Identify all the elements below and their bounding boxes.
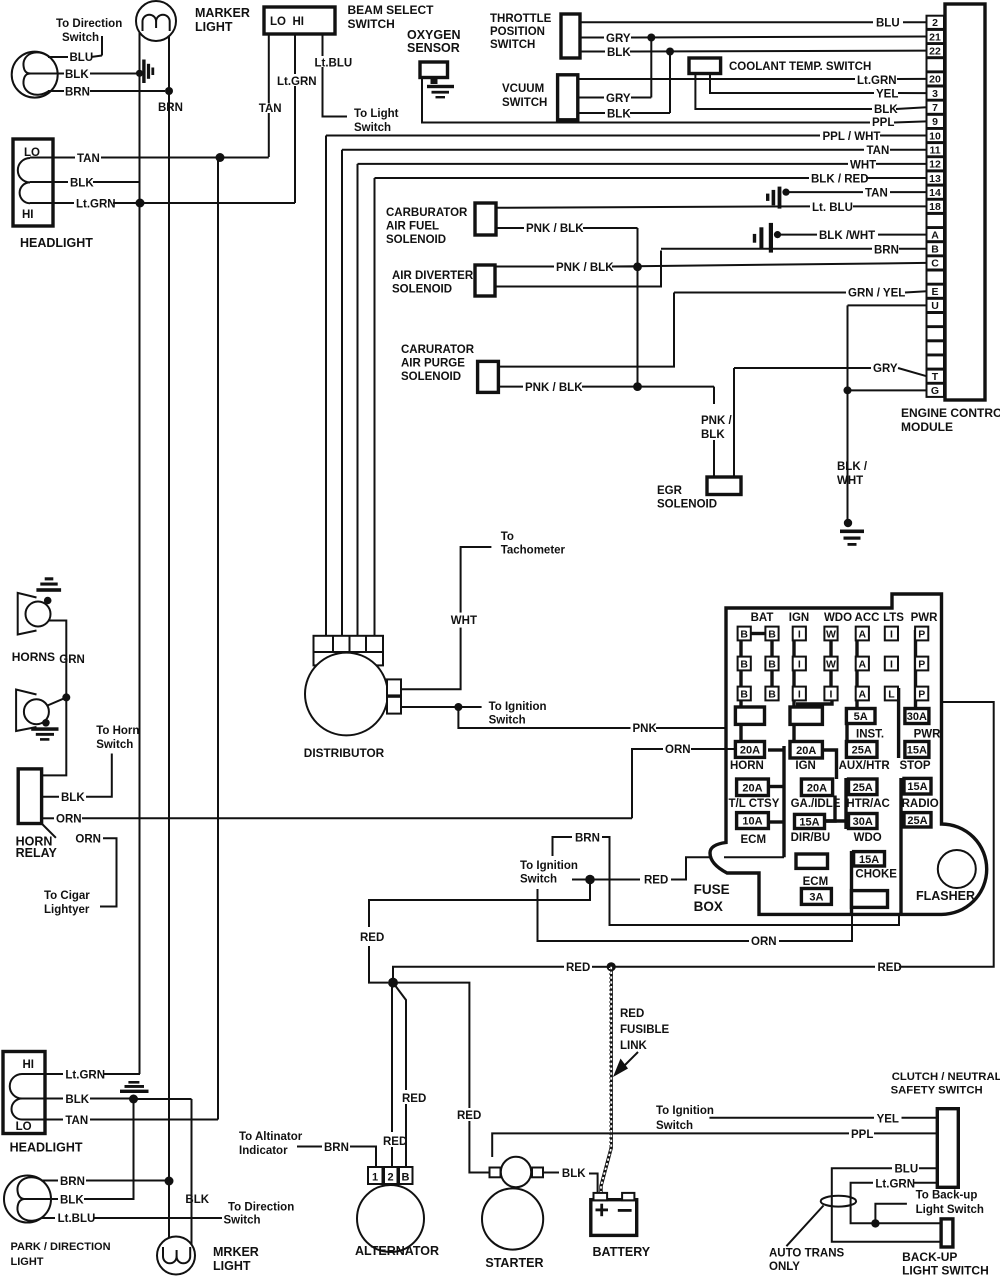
- svg-text:RADIO: RADIO: [902, 798, 939, 810]
- svg-text:TAN: TAN: [77, 153, 100, 165]
- svg-text:YEL: YEL: [877, 1114, 899, 1126]
- svg-text:AIR DIVERTER: AIR DIVERTER: [392, 270, 474, 282]
- svg-text:BLK: BLK: [562, 1168, 586, 1180]
- svg-text:Lt.GRN: Lt.GRN: [277, 76, 317, 88]
- svg-text:RED: RED: [644, 875, 668, 887]
- svg-text:To Horn: To Horn: [96, 725, 139, 737]
- svg-text:BLU: BLU: [876, 17, 900, 29]
- svg-text:LIGHT: LIGHT: [213, 1259, 251, 1273]
- svg-text:LTS: LTS: [883, 612, 904, 624]
- svg-text:Lightyer: Lightyer: [44, 904, 90, 916]
- svg-text:MRKER: MRKER: [213, 1245, 259, 1259]
- svg-text:CHOKE: CHOKE: [855, 869, 897, 881]
- svg-text:2: 2: [387, 1172, 393, 1184]
- svg-text:TAN: TAN: [867, 145, 890, 157]
- svg-text:HI: HI: [22, 209, 34, 221]
- svg-text:DISTRIBUTOR: DISTRIBUTOR: [304, 746, 385, 760]
- svg-text:COOLANT TEMP. SWITCH: COOLANT TEMP. SWITCH: [729, 61, 871, 73]
- svg-text:15A: 15A: [907, 781, 927, 793]
- svg-text:PPL: PPL: [851, 1129, 873, 1141]
- svg-text:1: 1: [372, 1172, 378, 1184]
- svg-text:AIR FUEL: AIR FUEL: [386, 221, 439, 233]
- svg-text:TAN: TAN: [865, 188, 888, 200]
- svg-text:AUX/HTR: AUX/HTR: [839, 760, 891, 772]
- svg-text:3A: 3A: [809, 891, 823, 903]
- svg-text:PNK /: PNK /: [701, 415, 732, 427]
- svg-text:GRY: GRY: [606, 93, 631, 105]
- svg-text:U: U: [931, 300, 939, 312]
- svg-text:SOLENOID: SOLENOID: [657, 499, 717, 511]
- svg-text:B: B: [768, 628, 776, 640]
- svg-text:Switch: Switch: [489, 715, 526, 727]
- svg-text:LIGHT SWITCH: LIGHT SWITCH: [902, 1264, 989, 1278]
- svg-text:BATTERY: BATTERY: [593, 1245, 651, 1259]
- svg-text:BLU: BLU: [895, 1164, 919, 1176]
- svg-text:20A: 20A: [807, 782, 827, 794]
- svg-text:12: 12: [929, 159, 941, 171]
- svg-text:BLK: BLK: [607, 47, 631, 59]
- svg-text:Lt.GRN: Lt.GRN: [875, 1179, 915, 1191]
- svg-text:B: B: [402, 1172, 410, 1184]
- svg-text:B: B: [740, 628, 748, 640]
- svg-text:3: 3: [932, 88, 938, 100]
- svg-text:ORN: ORN: [56, 814, 82, 826]
- svg-text:21: 21: [929, 31, 941, 43]
- svg-text:BLK: BLK: [701, 429, 725, 441]
- svg-text:VCUUM: VCUUM: [502, 83, 544, 95]
- svg-text:9: 9: [932, 116, 938, 128]
- svg-text:18: 18: [929, 201, 941, 213]
- svg-text:GRY: GRY: [606, 33, 631, 45]
- svg-text:STOP: STOP: [900, 760, 931, 772]
- svg-text:BLU: BLU: [70, 52, 94, 64]
- svg-text:SOLENOID: SOLENOID: [401, 371, 461, 383]
- svg-text:To Altinator: To Altinator: [239, 1131, 303, 1143]
- svg-text:I: I: [830, 688, 833, 700]
- svg-text:BRN: BRN: [158, 102, 183, 114]
- svg-text:15A: 15A: [859, 854, 879, 866]
- svg-text:ACC: ACC: [855, 612, 880, 624]
- svg-text:PNK / BLK: PNK / BLK: [525, 382, 583, 394]
- svg-text:P: P: [918, 658, 925, 670]
- svg-text:Switch: Switch: [62, 32, 99, 44]
- svg-text:BLK: BLK: [607, 109, 631, 121]
- svg-text:I: I: [890, 658, 893, 670]
- svg-text:Tachometer: Tachometer: [501, 545, 566, 557]
- svg-text:AIR PURGE: AIR PURGE: [401, 358, 465, 370]
- svg-text:B: B: [931, 244, 939, 256]
- svg-text:T/L CTSY: T/L CTSY: [729, 798, 780, 810]
- svg-text:PPL / WHT: PPL / WHT: [823, 131, 881, 143]
- svg-text:RELAY: RELAY: [16, 846, 58, 860]
- svg-text:To Ignition: To Ignition: [489, 701, 547, 713]
- svg-text:WDO: WDO: [854, 832, 882, 844]
- svg-text:Light Switch: Light Switch: [916, 1204, 984, 1216]
- svg-text:W: W: [826, 658, 836, 670]
- svg-text:To: To: [501, 531, 514, 543]
- svg-text:Indicator: Indicator: [239, 1145, 288, 1157]
- svg-text:E: E: [931, 286, 938, 298]
- svg-text:BLK /: BLK /: [837, 461, 868, 473]
- svg-text:BLK: BLK: [65, 1094, 89, 1106]
- svg-text:13: 13: [929, 173, 941, 185]
- svg-text:To Direction: To Direction: [228, 1202, 294, 1214]
- svg-text:THROTTLE: THROTTLE: [490, 13, 552, 25]
- svg-text:B: B: [740, 688, 748, 700]
- svg-text:BLK: BLK: [185, 1194, 209, 1206]
- svg-text:Switch: Switch: [656, 1120, 693, 1132]
- svg-text:RED: RED: [360, 932, 384, 944]
- svg-text:SOLENOID: SOLENOID: [392, 284, 452, 296]
- svg-text:PWR: PWR: [911, 612, 939, 624]
- svg-text:22: 22: [929, 45, 941, 57]
- svg-text:PARK / DIRECTION: PARK / DIRECTION: [11, 1241, 111, 1253]
- svg-text:PWR: PWR: [914, 729, 942, 741]
- svg-text:T: T: [932, 371, 939, 383]
- svg-text:BLK: BLK: [61, 792, 85, 804]
- svg-text:ENGINE CONTROL: ENGINE CONTROL: [901, 406, 1000, 420]
- svg-text:30A: 30A: [907, 711, 927, 723]
- svg-text:PNK / BLK: PNK / BLK: [526, 223, 584, 235]
- svg-text:20A: 20A: [796, 745, 816, 757]
- svg-text:FUSE: FUSE: [694, 882, 730, 897]
- svg-text:PNK / BLK: PNK / BLK: [556, 262, 614, 274]
- svg-text:L: L: [888, 688, 895, 700]
- svg-text:Lt.GRN: Lt.GRN: [857, 75, 897, 87]
- svg-text:Lt.BLU: Lt.BLU: [315, 58, 353, 70]
- svg-text:A: A: [931, 229, 939, 241]
- svg-text:SWITCH: SWITCH: [502, 97, 547, 109]
- svg-text:7: 7: [932, 102, 938, 114]
- svg-text:20A: 20A: [740, 744, 760, 756]
- svg-text:HEADLIGHT: HEADLIGHT: [20, 236, 93, 250]
- svg-text:POSITION: POSITION: [490, 26, 545, 38]
- svg-text:Lt.GRN: Lt.GRN: [65, 1070, 105, 1082]
- svg-text:WHT: WHT: [451, 615, 477, 627]
- svg-text:10A: 10A: [742, 816, 762, 828]
- svg-text:WHT: WHT: [850, 159, 876, 171]
- svg-text:AUTO TRANS: AUTO TRANS: [769, 1248, 845, 1260]
- svg-text:HORN: HORN: [730, 760, 764, 772]
- svg-text:HORNS: HORNS: [12, 650, 55, 664]
- svg-text:HEADLIGHT: HEADLIGHT: [10, 1141, 83, 1155]
- svg-text:11: 11: [929, 144, 940, 156]
- svg-text:SOLENOID: SOLENOID: [386, 234, 446, 246]
- svg-text:ONLY: ONLY: [769, 1261, 800, 1273]
- svg-text:BLK: BLK: [874, 104, 898, 116]
- svg-text:BEAM SELECT: BEAM SELECT: [348, 3, 435, 17]
- svg-text:CARURATOR: CARURATOR: [401, 344, 475, 356]
- svg-text:HI: HI: [23, 1059, 35, 1071]
- svg-text:To Back-up: To Back-up: [916, 1190, 978, 1202]
- svg-text:15A: 15A: [907, 744, 927, 756]
- svg-text:20: 20: [929, 74, 941, 86]
- svg-text:LO: LO: [270, 16, 286, 28]
- svg-text:SENSOR: SENSOR: [407, 41, 460, 55]
- svg-text:LIGHT: LIGHT: [195, 20, 233, 34]
- svg-text:BLK: BLK: [60, 1195, 84, 1207]
- svg-text:BLK: BLK: [70, 178, 94, 190]
- svg-text:BRN: BRN: [65, 87, 90, 99]
- svg-text:I: I: [798, 688, 801, 700]
- svg-text:I: I: [798, 628, 801, 640]
- svg-text:BRN: BRN: [60, 1176, 85, 1188]
- svg-text:ALTERNATOR: ALTERNATOR: [355, 1244, 439, 1258]
- svg-text:15A: 15A: [799, 816, 819, 828]
- svg-text:DIR/BU: DIR/BU: [791, 832, 831, 844]
- svg-text:Switch: Switch: [224, 1215, 261, 1227]
- svg-text:LO: LO: [16, 1121, 32, 1133]
- svg-text:B: B: [768, 688, 776, 700]
- svg-text:EGR: EGR: [657, 485, 683, 497]
- svg-text:RED: RED: [620, 1008, 644, 1020]
- svg-text:RED: RED: [402, 1093, 426, 1105]
- svg-text:BLK / RED: BLK / RED: [811, 174, 869, 186]
- svg-text:ORN: ORN: [751, 936, 777, 948]
- svg-text:ECM: ECM: [803, 876, 829, 888]
- svg-text:BLK: BLK: [65, 69, 89, 81]
- svg-text:MODULE: MODULE: [901, 420, 953, 434]
- svg-text:STARTER: STARTER: [485, 1256, 543, 1270]
- svg-text:25A: 25A: [907, 815, 927, 827]
- svg-text:HI: HI: [293, 16, 305, 28]
- svg-text:PNK: PNK: [633, 723, 658, 735]
- svg-text:B: B: [740, 658, 748, 670]
- svg-text:LIGHT: LIGHT: [11, 1256, 44, 1268]
- svg-text:I: I: [890, 628, 893, 640]
- svg-text:ECM: ECM: [741, 834, 767, 846]
- svg-text:25A: 25A: [852, 744, 872, 756]
- svg-text:IGN: IGN: [789, 612, 809, 624]
- svg-text:BOX: BOX: [694, 899, 723, 914]
- svg-text:B: B: [768, 658, 776, 670]
- svg-text:A: A: [859, 688, 867, 700]
- svg-text:To Ignition: To Ignition: [520, 860, 578, 872]
- svg-text:GRY: GRY: [873, 363, 898, 375]
- svg-text:FUSIBLE: FUSIBLE: [620, 1024, 670, 1036]
- svg-text:To Cigar: To Cigar: [44, 890, 90, 902]
- svg-text:BRN: BRN: [324, 1142, 349, 1154]
- svg-text:Switch: Switch: [520, 874, 557, 886]
- svg-text:INST.: INST.: [856, 729, 884, 741]
- svg-text:IGN: IGN: [795, 760, 815, 772]
- svg-text:A: A: [859, 628, 867, 640]
- svg-text:LINK: LINK: [620, 1040, 648, 1052]
- svg-text:I: I: [798, 658, 801, 670]
- svg-text:G: G: [931, 385, 939, 397]
- svg-text:WHT: WHT: [837, 475, 863, 487]
- svg-text:WDO: WDO: [824, 612, 852, 624]
- svg-text:YEL: YEL: [876, 89, 898, 101]
- svg-text:Switch: Switch: [96, 739, 133, 751]
- svg-text:FLASHER: FLASHER: [916, 889, 975, 903]
- svg-text:RED: RED: [457, 1110, 481, 1122]
- svg-text:SWITCH: SWITCH: [348, 17, 395, 31]
- svg-text:TAN: TAN: [65, 1115, 88, 1127]
- svg-text:SWITCH: SWITCH: [490, 39, 535, 51]
- svg-text:30A: 30A: [853, 816, 873, 828]
- svg-text:Lt.BLU: Lt.BLU: [58, 1213, 96, 1225]
- svg-text:SAFETY SWITCH: SAFETY SWITCH: [891, 1085, 983, 1097]
- svg-text:PPL: PPL: [872, 117, 894, 129]
- svg-text:To Light: To Light: [354, 108, 399, 120]
- svg-text:ORN: ORN: [665, 744, 691, 756]
- svg-text:Lt. BLU: Lt. BLU: [812, 202, 853, 214]
- svg-text:BLK /WHT: BLK /WHT: [819, 230, 875, 242]
- svg-text:2: 2: [932, 17, 938, 29]
- svg-text:P: P: [918, 628, 925, 640]
- svg-text:BRN: BRN: [575, 833, 600, 845]
- svg-text:GRN / YEL: GRN / YEL: [848, 288, 905, 300]
- svg-text:5A: 5A: [854, 711, 868, 723]
- svg-text:GRN: GRN: [59, 654, 85, 666]
- svg-text:Switch: Switch: [354, 122, 391, 134]
- svg-text:RED: RED: [383, 1136, 407, 1148]
- svg-text:20A: 20A: [742, 782, 762, 794]
- svg-text:HTR/AC: HTR/AC: [846, 798, 889, 810]
- svg-text:Lt.GRN: Lt.GRN: [76, 199, 116, 211]
- svg-text:To Direction: To Direction: [56, 18, 122, 30]
- svg-text:14: 14: [929, 187, 941, 199]
- svg-text:CARBURATOR: CARBURATOR: [386, 207, 468, 219]
- svg-text:To Ignition: To Ignition: [656, 1105, 714, 1117]
- svg-text:C: C: [931, 258, 939, 270]
- svg-text:BRN: BRN: [874, 244, 899, 256]
- svg-text:10: 10: [929, 130, 941, 142]
- svg-text:A: A: [859, 658, 867, 670]
- svg-text:BACK-UP: BACK-UP: [902, 1250, 957, 1264]
- svg-text:GA./IDLE: GA./IDLE: [791, 798, 841, 810]
- svg-text:CLUTCH / NEUTRAL: CLUTCH / NEUTRAL: [892, 1071, 1000, 1083]
- svg-text:OXYGEN: OXYGEN: [407, 28, 461, 42]
- svg-text:W: W: [826, 628, 836, 640]
- svg-text:RED: RED: [878, 962, 902, 974]
- svg-text:ORN: ORN: [75, 834, 101, 846]
- svg-text:MARKER: MARKER: [195, 6, 250, 20]
- svg-text:RED: RED: [566, 962, 590, 974]
- svg-text:25A: 25A: [853, 782, 873, 794]
- svg-text:BAT: BAT: [751, 612, 774, 624]
- svg-text:P: P: [918, 688, 925, 700]
- svg-text:TAN: TAN: [259, 103, 282, 115]
